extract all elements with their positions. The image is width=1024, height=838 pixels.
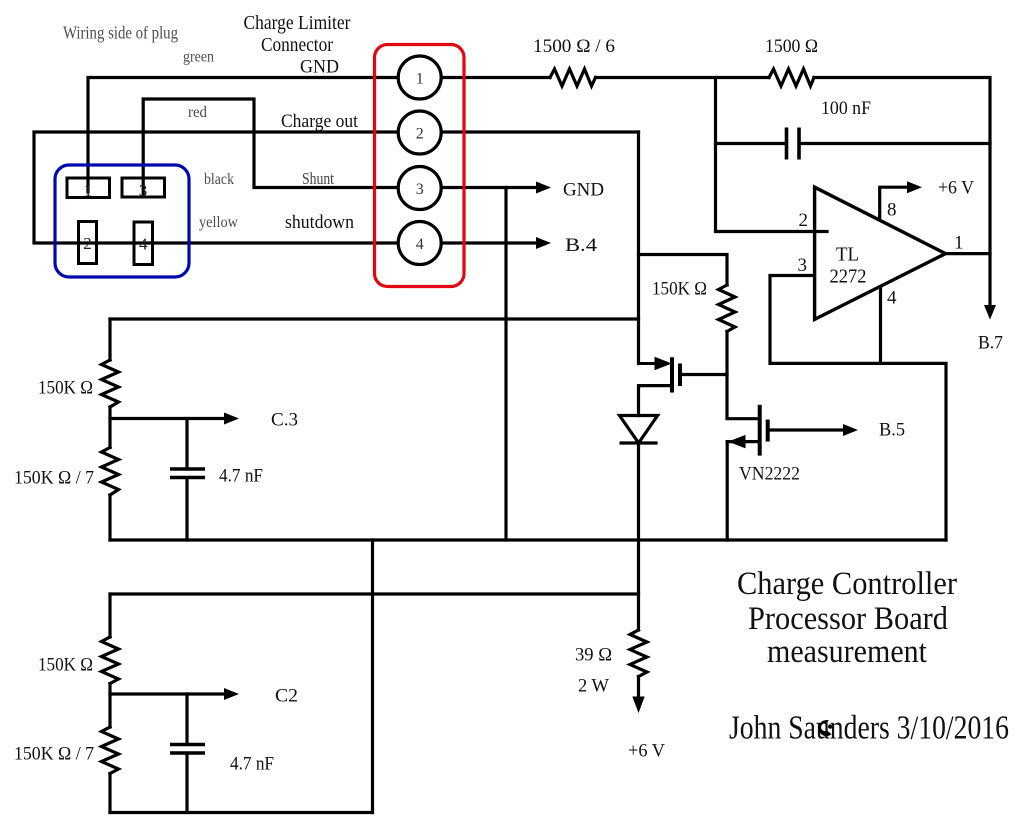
svg-text:8: 8 bbox=[887, 200, 897, 221]
svg-text:green: green bbox=[183, 49, 214, 66]
wire GND row right: circle1 to 1500/6 resistor bbox=[441, 76, 550, 79]
resistor R2 1500 ohm bbox=[769, 69, 814, 86]
plug P1 pin 3 rect bbox=[122, 178, 165, 197]
arrowhead GND (shunt row) bbox=[536, 182, 551, 194]
diode D1 triangle bbox=[620, 416, 658, 444]
transistor Q2 source arrowhead (points left) bbox=[730, 436, 746, 448]
wire vertical x638.5 from charge-out row to M1 gate bbox=[637, 132, 640, 364]
arrowhead B.7 (down) bbox=[984, 305, 996, 320]
resistor R8 39 ohm 2W bbox=[630, 630, 647, 677]
svg-text:100 nF: 100 nF bbox=[821, 98, 871, 119]
svg-text:2 W: 2 W bbox=[578, 676, 609, 697]
connector J1 circle pin 3 bbox=[398, 167, 441, 210]
plug P1 pin 2 rect bbox=[79, 222, 97, 264]
wire: R3 bottom to M2 gate elbow bbox=[727, 332, 758, 419]
svg-text:VN2222: VN2222 bbox=[739, 464, 800, 485]
svg-text:1500 Ω: 1500 Ω bbox=[765, 36, 818, 57]
transistor Q1 gate lead bbox=[639, 362, 657, 365]
svg-text:3: 3 bbox=[139, 181, 148, 200]
svg-text:150K Ω: 150K Ω bbox=[652, 279, 707, 300]
svg-text:4: 4 bbox=[139, 235, 148, 254]
wire C2 node arrow line bbox=[110, 692, 226, 695]
svg-text:2272: 2272 bbox=[830, 266, 867, 288]
wire M2 drain to B.5 arrow bbox=[768, 428, 844, 431]
resistor R3 150K ohm (vertical, near M1) bbox=[719, 285, 736, 332]
svg-text:3: 3 bbox=[416, 181, 424, 198]
plug P1 blue outline bbox=[55, 165, 189, 277]
arrowhead +6V op-amp pin8 bbox=[907, 181, 922, 193]
connector J1 red outline bbox=[375, 45, 465, 287]
wire shunt row right: circle3 to GND arrow bbox=[441, 186, 537, 189]
svg-text:GND: GND bbox=[300, 57, 339, 78]
svg-text:yellow: yellow bbox=[199, 214, 239, 231]
svg-text:black: black bbox=[204, 171, 234, 188]
svg-text:1500 Ω / 6: 1500 Ω / 6 bbox=[533, 36, 615, 57]
wire op-amp pin3 stub and feedback down bbox=[770, 276, 946, 541]
svg-text:John Saunders 3/10/2016: John Saunders 3/10/2016 bbox=[729, 710, 1009, 747]
transistor Q1 gate arrowhead bbox=[655, 358, 671, 370]
svg-text:150K Ω: 150K Ω bbox=[38, 655, 93, 676]
wire M2 source lead bbox=[727, 440, 760, 443]
connector J1 circle pin 1 bbox=[398, 56, 441, 99]
svg-text:GND: GND bbox=[563, 180, 604, 201]
diode D1 cathode bar bbox=[620, 441, 658, 444]
wire C.3 node arrow line bbox=[110, 417, 226, 420]
wire M1 drain to x727 bbox=[680, 373, 727, 376]
wire mid horizontal y319 bbox=[110, 317, 639, 320]
wire charge out row: left loop down to plug pins 2,4 row bbox=[34, 132, 398, 243]
diode D1 leads bbox=[637, 386, 640, 630]
svg-text:2: 2 bbox=[416, 126, 424, 143]
wire: R8 to +6V arrow bbox=[637, 677, 640, 700]
svg-text:Connector: Connector bbox=[261, 35, 333, 56]
wire cap 100nF left lead bbox=[716, 142, 787, 145]
arrowhead B.5 bbox=[843, 424, 858, 436]
capacitor C4 bottom lead bbox=[185, 754, 188, 813]
wire branch y254.5 to 150K resistor top bbox=[639, 255, 728, 286]
svg-text:2: 2 bbox=[799, 210, 809, 231]
svg-text:TL: TL bbox=[836, 244, 859, 266]
svg-text:1: 1 bbox=[954, 233, 964, 254]
svg-text:150K Ω: 150K Ω bbox=[38, 378, 93, 399]
resistor R4 150K ohm (mid-left upper) bbox=[102, 360, 119, 407]
transistor Q2 VN2222 channel bar bbox=[766, 420, 770, 442]
svg-text:150K Ω / 7: 150K Ω / 7 bbox=[14, 744, 94, 765]
wire shutdown row right: circle4 to B.4 arrow bbox=[441, 241, 537, 244]
svg-text:C.3: C.3 bbox=[271, 410, 298, 431]
wire lower-left vertical x110 to 150K bbox=[108, 594, 111, 637]
svg-text:B.7: B.7 bbox=[978, 333, 1003, 354]
wire M2 source down to rail bbox=[726, 442, 729, 540]
arrowhead C2 bbox=[224, 688, 239, 700]
transistor Q2 VN2222 gate bar bbox=[758, 405, 762, 456]
wire: R4 to node C.3 bbox=[108, 407, 111, 448]
plug P1 pin 1 rect bbox=[67, 178, 110, 198]
wire op-amp pin1 output bbox=[946, 252, 991, 255]
arrowhead B.4 bbox=[536, 237, 551, 249]
svg-text:4.7 nF: 4.7 nF bbox=[230, 754, 274, 775]
wire green: GND row left, circle1 to plug pin1 bbox=[88, 78, 398, 193]
arrowhead +6V down (below 39 ohm) bbox=[632, 697, 644, 714]
svg-text:Charge Limiter: Charge Limiter bbox=[244, 13, 351, 34]
signature artifact blob on letter u bbox=[818, 720, 831, 736]
wire cap 100nF right lead bbox=[799, 142, 990, 145]
capacitor C3 bottom lead bbox=[185, 479, 188, 541]
wire charge out row right: circle2 to corner x638.5 bbox=[441, 130, 638, 133]
svg-text:Charge out: Charge out bbox=[281, 111, 359, 132]
wire: R6 to node C2 bbox=[108, 684, 111, 728]
svg-text:shutdown: shutdown bbox=[285, 212, 354, 233]
svg-text:39 Ω: 39 Ω bbox=[575, 645, 612, 666]
plug P1 pin 4 rect bbox=[134, 222, 153, 265]
capacitor C3 4.7nF plates bbox=[170, 469, 205, 478]
svg-text:1: 1 bbox=[84, 181, 93, 200]
svg-text:+6 V: +6 V bbox=[628, 741, 665, 762]
connector J1 circle pin 2 bbox=[398, 111, 441, 154]
resistor R7 150K ohm / 7 (low-left lower) bbox=[102, 727, 119, 774]
resistor R6 150K ohm (low-left upper) bbox=[102, 637, 119, 684]
svg-text:4: 4 bbox=[416, 236, 424, 253]
svg-text:B.4: B.4 bbox=[565, 235, 598, 256]
wire red: plug pin3 up over to shunt row circle3 bbox=[143, 99, 398, 194]
capacitor C1 100nF plates bbox=[787, 128, 800, 160]
svg-text:3: 3 bbox=[798, 255, 808, 276]
svg-text:150K Ω / 7: 150K Ω / 7 bbox=[14, 468, 94, 489]
transistor Q1 gate bar bbox=[670, 357, 674, 392]
wire M1 source to diode bbox=[639, 384, 672, 388]
wire left block top y319 vertical x110 down to 150K bbox=[108, 319, 111, 360]
signature artifact dot bbox=[828, 724, 832, 728]
capacitor C4 4.7nF plates bbox=[170, 745, 205, 754]
svg-text:Charge Controller: Charge Controller bbox=[737, 566, 957, 602]
transistor Q1 channel bar bbox=[678, 364, 682, 387]
wire op-amp pin2 from node x715.5 bbox=[716, 78, 828, 232]
wire lower block top y594 bbox=[110, 592, 639, 595]
svg-text:Processor Board: Processor Board bbox=[748, 601, 948, 637]
svg-text:B.5: B.5 bbox=[879, 420, 905, 441]
svg-text:+6 V: +6 V bbox=[938, 178, 974, 199]
resistor R5 150K ohm / 7 (mid-left lower) bbox=[102, 448, 119, 496]
op-amp U1 TL2272 triangle bbox=[815, 187, 946, 319]
capacitor C3 top lead bbox=[185, 419, 188, 469]
wire vertical x372.5 rail to lower rail bbox=[371, 540, 374, 813]
arrowhead C.3 bbox=[224, 413, 239, 425]
svg-text:2: 2 bbox=[83, 234, 92, 253]
svg-text:measurement: measurement bbox=[767, 634, 927, 670]
wire: R1 to node at x715.5 to R2 bbox=[596, 76, 770, 79]
resistor R1 1500 ohm / 6 bbox=[550, 69, 596, 86]
connector J1 circle pin 4 bbox=[398, 222, 441, 265]
lower rail y812.5 bbox=[110, 811, 373, 814]
svg-text:4.7 nF: 4.7 nF bbox=[219, 466, 263, 487]
svg-text:Wiring side of plug: Wiring side of plug bbox=[63, 23, 178, 43]
svg-text:C2: C2 bbox=[275, 686, 298, 707]
wire: R2 to top-right corner down to B.7 arrow bbox=[814, 78, 990, 307]
wire: R5 to bottom rail bbox=[108, 495, 111, 540]
svg-text:Shunt: Shunt bbox=[302, 169, 334, 188]
svg-text:4: 4 bbox=[887, 288, 897, 309]
wire op-amp pin8 vertical bbox=[880, 187, 908, 219]
svg-text:red: red bbox=[188, 104, 207, 121]
capacitor C4 top lead bbox=[185, 694, 188, 744]
bottom rail y540 bbox=[110, 538, 946, 541]
wire vertical x506 from shunt row to bottom rail bbox=[504, 188, 507, 541]
wire op-amp pin4 vertical bbox=[879, 288, 882, 364]
svg-text:1: 1 bbox=[416, 71, 424, 88]
wire: R7 to lower rail bbox=[108, 774, 111, 813]
